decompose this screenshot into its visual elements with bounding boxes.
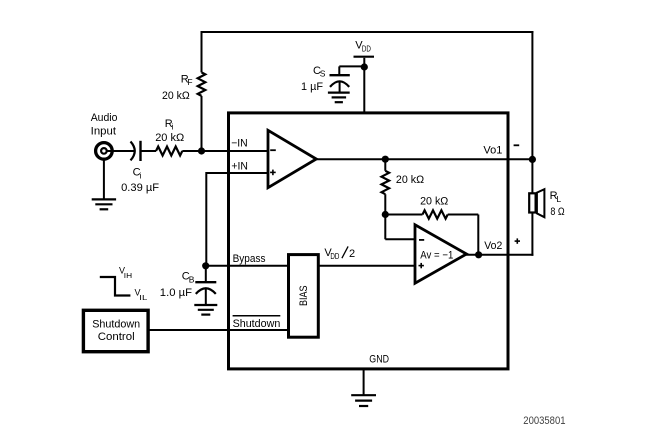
svg-text:Shutdown: Shutdown xyxy=(92,319,140,331)
svg-text:1.0 µF: 1.0 µF xyxy=(160,287,192,299)
svg-text:Shutdown: Shutdown xyxy=(233,318,281,330)
svg-text:20 kΩ: 20 kΩ xyxy=(420,196,448,208)
svg-text:IH: IH xyxy=(124,273,132,280)
svg-text:Bypass: Bypass xyxy=(233,253,266,265)
svg-text:8 Ω: 8 Ω xyxy=(550,206,564,218)
svg-text:BIAS: BIAS xyxy=(298,286,310,307)
svg-text:20 kΩ: 20 kΩ xyxy=(162,90,190,102)
svg-text:20 kΩ: 20 kΩ xyxy=(396,174,424,186)
svg-text:20 kΩ: 20 kΩ xyxy=(155,132,184,144)
svg-text:B: B xyxy=(189,275,195,285)
svg-text:S: S xyxy=(320,69,326,79)
svg-text:DD: DD xyxy=(330,251,339,261)
svg-text:Av = −1: Av = −1 xyxy=(420,249,453,261)
svg-text:Audio: Audio xyxy=(91,112,118,124)
svg-text:2: 2 xyxy=(349,248,355,260)
svg-text:1 µF: 1 µF xyxy=(301,81,323,93)
svg-text:20035801: 20035801 xyxy=(523,415,565,427)
svg-text:IL: IL xyxy=(139,295,147,302)
svg-text:GND: GND xyxy=(369,353,389,365)
svg-text:Input: Input xyxy=(91,126,116,138)
svg-text:DD: DD xyxy=(362,44,371,54)
svg-text:−IN: −IN xyxy=(231,137,248,149)
svg-text:i: i xyxy=(172,122,174,132)
svg-text:i: i xyxy=(140,170,142,180)
svg-text:+IN: +IN xyxy=(231,161,248,173)
svg-text:L: L xyxy=(556,194,561,204)
svg-text:F: F xyxy=(187,77,192,87)
svg-text:Vo1: Vo1 xyxy=(483,145,502,157)
svg-text:0.39 µF: 0.39 µF xyxy=(121,182,159,194)
svg-text:Vo2: Vo2 xyxy=(484,240,502,252)
svg-text:Control: Control xyxy=(98,331,135,343)
